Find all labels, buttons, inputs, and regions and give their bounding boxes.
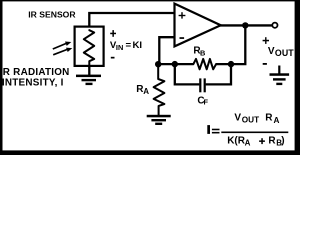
node A (inverting input / RA top) [155,61,161,67]
- label of VOUT [263,63,267,65]
svg-text:K(R: K(R [227,136,246,147]
svg-text:A: A [245,139,251,148]
wire op-amp inverting input from feedback node [159,37,174,64]
svg-text:KI: KI [133,40,143,51]
svg-text:R: R [268,136,276,147]
IR radiation arrows [53,42,73,55]
capacitor CF plates [199,78,206,92]
label CF [197,95,208,106]
svg-text:V: V [234,113,241,124]
node B (CF left) [172,61,178,67]
svg-text:R: R [265,113,273,124]
node C (CF right) [228,61,234,67]
label VOUT [268,46,294,58]
capacitor CF loop wires [175,64,231,84]
svg-text:A: A [274,116,280,125]
svg-text:IR SENSOR: IR SENSOR [28,9,76,19]
svg-text:B: B [200,49,205,58]
+ label of VOUT [263,37,269,44]
ground at VOUT [270,66,290,86]
wire sensor bottom to ground [88,66,90,75]
svg-text:IR RADIATION: IR RADIATION [0,67,70,78]
svg-text:=: = [126,40,132,51]
IR sensor (photoresistor) box [75,27,104,67]
output terminal circle [272,23,277,28]
svg-text:INTENSITY, I: INTENSITY, I [2,77,64,88]
wire op-amp output [220,24,273,26]
label RB [193,46,205,58]
svg-text:OUT: OUT [275,48,294,58]
svg-text:V: V [268,46,275,57]
ground under RA [147,115,171,125]
svg-text:IN: IN [116,43,123,52]
wire feedback left segment [158,63,194,65]
svg-text:F: F [204,98,209,107]
+ label of VIN [110,30,116,37]
op-amp U1 [175,4,221,47]
ground under sensor [76,75,101,86]
resistor RA [154,64,165,115]
equation I = VOUT RA / K(RA + RB) [207,113,288,148]
wire sensor top to op-amp + input [89,13,175,27]
svg-text:OUT: OUT [242,116,259,125]
label RA [136,84,149,96]
- label of VIN [111,57,115,59]
svg-text:): ) [281,136,284,147]
wire output down to feedback wire [216,25,245,64]
resistor RB [193,59,216,69]
node output junction [242,22,248,28]
label VIN = KI [110,40,143,52]
label IR RADIATION INTENSITY, I [0,67,70,89]
svg-text:A: A [143,87,149,96]
